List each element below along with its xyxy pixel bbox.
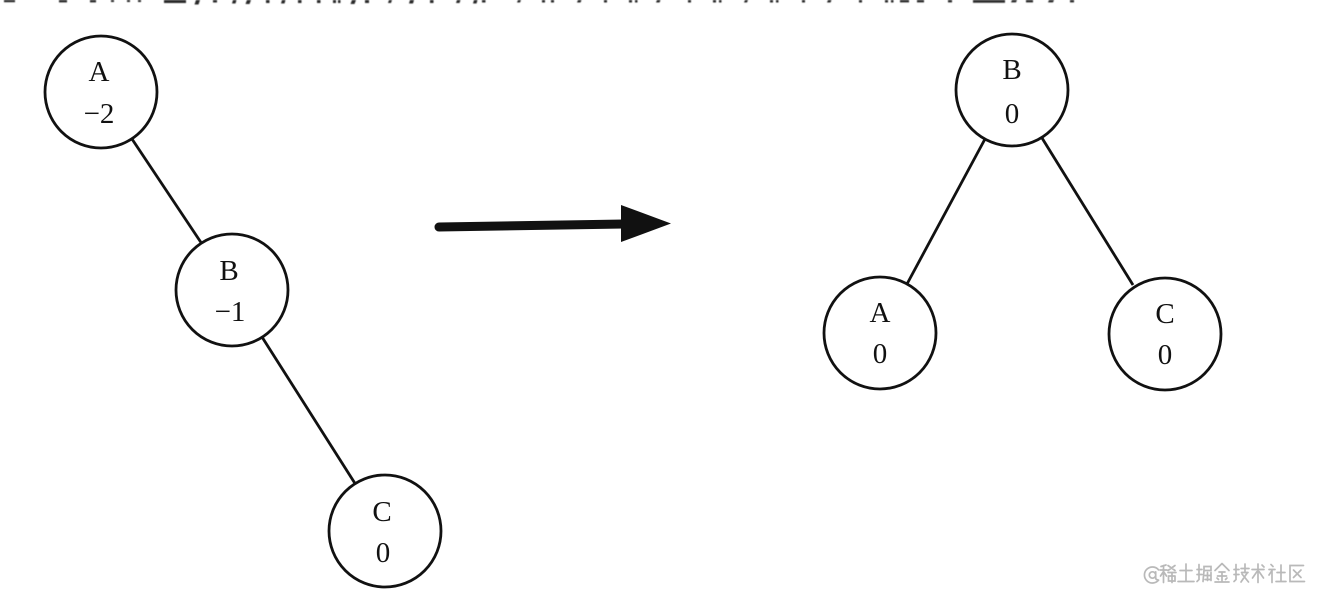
wire: edge B-A (right tree)	[907, 139, 985, 284]
svg-text:C: C	[372, 496, 391, 528]
svg-text:0: 0	[376, 537, 391, 569]
svg-text:B: B	[219, 255, 238, 287]
xi	[1160, 565, 1176, 583]
@	[1144, 567, 1158, 583]
wire: edge B-C (right tree)	[1042, 138, 1133, 285]
svg-text:A: A	[89, 56, 110, 88]
jin	[1215, 564, 1229, 583]
arrow (rotation)	[439, 205, 671, 242]
node C (left, balance 0)	[329, 475, 441, 587]
watermark @juejin community	[1144, 564, 1304, 583]
wire: edge B-C (left tree)	[262, 337, 356, 485]
ji	[1234, 564, 1249, 582]
svg-text:−1: −1	[215, 296, 246, 328]
jue	[1197, 565, 1211, 582]
node B (left, balance -1)	[176, 234, 288, 346]
node C (right, balance 0)	[1109, 278, 1221, 390]
svg-text:C: C	[1155, 298, 1174, 330]
svg-text:B: B	[1002, 54, 1021, 86]
node A (right, balance 0)	[824, 277, 936, 389]
qu	[1290, 566, 1305, 582]
svg-text:−2: −2	[84, 98, 115, 130]
wire: edge A-B (left tree)	[132, 139, 202, 244]
tu	[1178, 564, 1194, 582]
clipped text line at top	[4, 0, 1074, 5]
svg-text:A: A	[870, 297, 891, 329]
shu	[1252, 564, 1264, 583]
node A (left, balance -2)	[45, 36, 157, 148]
node B (right root, balance 0)	[956, 34, 1068, 146]
she	[1269, 565, 1286, 583]
svg-text:0: 0	[1005, 98, 1020, 130]
svg-text:0: 0	[873, 338, 888, 370]
svg-text:0: 0	[1158, 339, 1173, 371]
